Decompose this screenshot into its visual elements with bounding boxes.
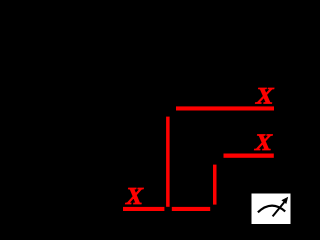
meter M1 needle — [273, 202, 285, 216]
meter M1 needle arrowhead — [281, 197, 288, 204]
svg-text:X: X — [254, 130, 274, 156]
wire top branch — [176, 106, 274, 110]
wire middle branch — [224, 154, 274, 158]
svg-text:X: X — [255, 84, 275, 110]
meter M1 box — [252, 194, 291, 225]
wire vertical left — [166, 117, 170, 207]
wire bottom right segment — [172, 207, 210, 211]
wire vertical right — [213, 165, 217, 205]
svg-text:X: X — [125, 184, 144, 210]
wire bottom left segment — [123, 207, 164, 211]
meter M1 scale arc — [258, 206, 285, 213]
